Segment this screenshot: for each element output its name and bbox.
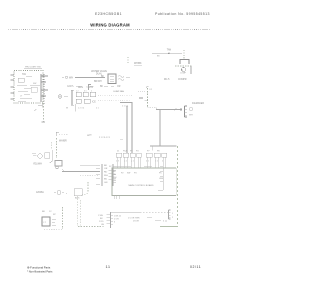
svg-text:2 1: 2 1 — [96, 108, 100, 110]
group B sub labels — [146, 161, 164, 163]
svg-text:AUX: AUX — [75, 197, 80, 200]
svg-text:MAIN CONTROL BOARD: MAIN CONTROL BOARD — [128, 184, 153, 187]
svg-text:WH/BR: WH/BR — [59, 141, 67, 143]
cluster row2 — [76, 99, 81, 103]
small circle at relay corner — [56, 166, 58, 168]
inner small box — [18, 78, 24, 82]
light switch dashed box — [14, 71, 43, 104]
pins below board bottom — [114, 196, 119, 200]
partition dashed vertical — [177, 146, 179, 226]
svg-text:WH: WH — [69, 76, 73, 79]
svg-text:2 1: 2 1 — [146, 161, 150, 163]
svg-text:P8: P8 — [157, 151, 160, 153]
tick row under cluster lines — [122, 106, 129, 108]
svg-text:21: 21 — [117, 151, 120, 153]
wire label column into board — [96, 165, 100, 184]
compressor symbol — [182, 68, 186, 72]
svg-text:BK: BK — [42, 211, 45, 213]
svg-text:AWB: AWB — [87, 133, 93, 137]
inner divider — [162, 168, 164, 190]
svg-text:5P: 5P — [53, 214, 56, 216]
connector group B labels — [147, 151, 160, 153]
svg-text:BR/WH: BR/WH — [94, 81, 102, 83]
svg-text:1 3: 1 3 — [116, 161, 120, 163]
svg-text:GN: GN — [101, 224, 105, 226]
svg-text:W: W — [66, 108, 68, 110]
cluster digits above — [76, 91, 92, 93]
svg-text:WH/BK: WH/BK — [134, 63, 142, 65]
svg-text:BU: BU — [104, 179, 107, 181]
cluster small boxes row1 — [76, 92, 81, 97]
svg-text:OR: OR — [117, 86, 121, 88]
svg-text:1 5 OR TWR: 1 5 OR TWR — [128, 218, 140, 220]
below-box marks — [38, 104, 42, 108]
svg-text:E23HCB5GB1: E23HCB5GB1 — [95, 12, 122, 16]
svg-text:LT: LT — [44, 222, 47, 224]
small motor component bottom-left of board — [54, 192, 56, 194]
svg-text:TAN: TAN — [167, 49, 172, 52]
connector group B boxes — [146, 153, 167, 157]
right bracket of lower row — [169, 210, 171, 219]
svg-text:* Non-Illustrated Parts: * Non-Illustrated Parts — [27, 269, 53, 273]
svg-text:1: 1 — [172, 213, 174, 215]
bus wire above board — [114, 165, 131, 167]
svg-text:RD: RD — [113, 174, 116, 176]
left notch pins — [109, 171, 113, 180]
long wire into board — [62, 171, 100, 173]
svg-text:WH: WH — [104, 175, 108, 177]
svg-text:LINE: LINE — [159, 178, 164, 180]
svg-text:BK: BK — [101, 76, 105, 78]
svg-text:WH: WH — [113, 177, 117, 179]
svg-text:SW: SW — [22, 73, 27, 76]
water valve wire — [62, 77, 64, 79]
svg-text:02/11: 02/11 — [190, 265, 201, 269]
svg-text:YEL/WH: YEL/WH — [33, 164, 42, 166]
top bracket of defrost line — [56, 132, 59, 136]
svg-text:ICE: ICE — [92, 102, 96, 104]
main control board — [112, 168, 176, 196]
group A sub labels — [116, 161, 135, 163]
svg-text:ICEMAKER: ICEMAKER — [192, 102, 204, 105]
group B pins — [148, 158, 166, 169]
dashed line under main wire — [80, 175, 98, 177]
svg-text:2 1 2 3 4 2 1: 2 1 2 3 4 2 1 — [99, 137, 111, 139]
svg-text:Publication No. 5995545513: Publication No. 5995545513 — [155, 12, 210, 16]
svg-text:RD: RD — [104, 172, 108, 174]
small vertical dashed + label top-center-right — [127, 57, 129, 63]
svg-text:DOOR: DOOR — [133, 221, 140, 223]
svg-text:BK: BK — [104, 165, 107, 167]
arrow wire — [147, 88, 149, 107]
svg-text:DUAL: DUAL — [96, 72, 103, 75]
dashed wires down — [87, 182, 89, 193]
svg-text:WATER VALVE: WATER VALVE — [91, 70, 107, 73]
svg-text:P4: P4 — [136, 151, 139, 153]
svg-text:AUG: AUG — [78, 86, 83, 89]
relay/overload box — [180, 60, 189, 65]
svg-text:⊕ Functional Parts: ⊕ Functional Parts — [27, 266, 51, 270]
dashed wire down from box — [43, 103, 45, 122]
board inner labels — [121, 173, 162, 175]
svg-text:P3: P3 — [130, 151, 133, 153]
svg-text:2: 2 — [172, 217, 174, 219]
svg-text:BK: BK — [113, 171, 116, 173]
hook wire top — [89, 85, 92, 91]
svg-text:1 2 3 4: 1 2 3 4 — [78, 108, 85, 110]
svg-text:2 RD: 2 RD — [99, 221, 104, 223]
svg-text:COMP: COMP — [180, 73, 187, 75]
svg-text:P5: P5 — [159, 173, 162, 175]
svg-text:GN: GN — [113, 180, 117, 182]
center vertical wires — [131, 102, 133, 153]
fan motor circle — [51, 142, 53, 150]
right edge pins — [41, 74, 48, 104]
svg-text:M: M — [181, 70, 183, 72]
dashed lines to right — [98, 95, 133, 97]
icemaker wire — [156, 109, 182, 111]
relay box — [55, 161, 62, 167]
svg-text:COMPR: COMPR — [178, 79, 187, 81]
svg-text:BK: BK — [100, 86, 104, 88]
svg-text:P2: P2 — [121, 173, 124, 175]
svg-text:FRZ LIGHT SW: FRZ LIGHT SW — [25, 67, 41, 69]
svg-text:S2: S2 — [109, 166, 112, 168]
svg-text:2 1 3 4: 2 1 3 4 — [122, 106, 129, 108]
dotted rule under title — [8, 29, 211, 31]
svg-text:12: 12 — [49, 211, 52, 213]
group A pins — [118, 158, 141, 169]
svg-text:2 OR: 2 OR — [114, 219, 119, 221]
left inner column texts — [113, 171, 117, 182]
svg-text:SW: SW — [127, 173, 130, 175]
squiggle marks right of box — [118, 76, 124, 78]
svg-text:s: s — [66, 193, 68, 195]
svg-text:EVAP FAN: EVAP FAN — [114, 90, 125, 93]
svg-text:OR: OR — [104, 168, 108, 170]
svg-text:RC-5: RC-5 — [164, 79, 170, 81]
svg-text:P7: P7 — [147, 151, 150, 153]
svg-text:BK: BK — [157, 56, 160, 58]
svg-text:MTR: MTR — [88, 87, 93, 89]
bits under box — [104, 85, 114, 87]
connector group A labels — [117, 151, 139, 153]
left pins of box — [11, 75, 15, 99]
svg-text:11: 11 — [106, 264, 111, 269]
bottom-left component (ice container) — [42, 211, 56, 216]
lower connector row — [98, 215, 105, 226]
circle left of cluster — [58, 95, 62, 99]
svg-text:BK: BK — [100, 218, 103, 220]
dashed drop to relay — [183, 50, 185, 59]
svg-text:3: 3 — [114, 222, 116, 224]
svg-text:J2008A: J2008A — [36, 191, 44, 194]
svg-text:P3: P3 — [134, 173, 137, 175]
cluster bracket — [71, 90, 73, 105]
svg-text:1 WH: 1 WH — [98, 215, 104, 217]
svg-text:5: 5 — [163, 221, 165, 223]
connector group A boxes — [116, 153, 141, 157]
inner marks — [17, 76, 40, 101]
svg-text:GN: GN — [104, 182, 108, 184]
svg-text:GN/YL: GN/YL — [67, 86, 75, 88]
svg-text:WIRING DIAGRAM: WIRING DIAGRAM — [90, 22, 130, 27]
svg-text:FZ: FZ — [150, 89, 153, 91]
svg-text:SW: SW — [33, 83, 36, 85]
svg-text:WH: WH — [189, 115, 193, 117]
svg-text:1 BK 12: 1 BK 12 — [114, 216, 122, 218]
svg-text:LT: LT — [20, 96, 23, 98]
small diag mark — [34, 109, 37, 111]
